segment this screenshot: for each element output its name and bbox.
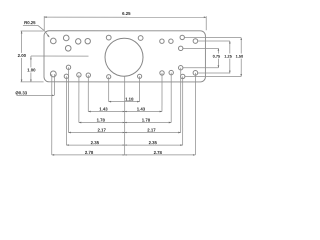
ext line from B9 — [182, 76, 184, 145]
dim 1.00 elbow / centerline ext — [31, 55, 89, 57]
hole T6 — [106, 35, 111, 40]
hole T4 — [76, 39, 81, 44]
hole B2 — [66, 65, 70, 69]
label 1.25 — [224, 53, 233, 58]
dim row 1.78 — [79, 121, 171, 123]
label 0.75 — [212, 53, 221, 58]
ext line from B6 — [161, 73, 163, 112]
svg-text:1.25: 1.25 — [224, 54, 232, 59]
hole B10 — [193, 71, 198, 76]
hole B1 — [50, 71, 56, 77]
hole T8 — [160, 39, 164, 43]
dim 1.25 — [198, 40, 230, 42]
ext line from BM2 — [139, 76, 141, 101]
ext line from B2 — [67, 67, 69, 132]
svg-text:R0.25: R0.25 — [24, 20, 36, 25]
svg-text:2.78: 2.78 — [85, 150, 94, 155]
dim 6.25 line — [44, 16, 206, 18]
hole T11 — [193, 39, 198, 44]
dim 2.00 line — [21, 31, 23, 82]
ext line from B3 — [65, 76, 67, 145]
centerline — [124, 76, 126, 155]
svg-text:0.75: 0.75 — [213, 54, 221, 59]
hole B3 — [64, 74, 68, 78]
ext line left — [43, 16, 45, 30]
svg-text:2.17: 2.17 — [97, 128, 106, 133]
svg-text:2.00: 2.00 — [18, 53, 27, 58]
svg-text:6.25: 6.25 — [122, 11, 131, 16]
hole T12 — [179, 46, 183, 50]
svg-text:1.43: 1.43 — [137, 107, 146, 112]
hole B8 — [179, 66, 183, 70]
label 2.00 — [17, 53, 27, 58]
big center hole — [105, 38, 143, 76]
ext line right — [205, 16, 207, 30]
hole T1 — [51, 38, 57, 44]
hole B9 — [181, 74, 185, 78]
dim row 2.78 — [52, 154, 196, 156]
svg-text:Ø0.33: Ø0.33 — [15, 90, 27, 95]
dim 1.00 line — [30, 56, 32, 82]
leader R0.25 — [23, 26, 49, 38]
dim row 2.17 — [68, 131, 180, 133]
svg-text:1.78: 1.78 — [97, 118, 106, 123]
dim row 2.35 — [66, 144, 182, 146]
ext lines below hole B1 — [51, 74, 53, 155]
ext line from B8 — [180, 68, 182, 133]
dim 1.50 — [185, 37, 242, 39]
hole B5 — [86, 73, 90, 77]
hole T3 — [65, 45, 71, 51]
hole BM2 — [138, 74, 142, 78]
ext line bottom-left — [21, 81, 44, 83]
hole B7 — [169, 70, 173, 74]
dim 0.75 — [183, 47, 218, 49]
plate outline — [44, 31, 205, 82]
svg-text:1.00: 1.00 — [27, 67, 36, 72]
svg-text:2.35: 2.35 — [91, 140, 100, 145]
label 1.50 — [235, 53, 244, 58]
dim row 1.43 — [88, 110, 162, 112]
hole B6 — [160, 71, 164, 75]
label 1.00 — [26, 67, 36, 72]
hole T2 — [63, 35, 69, 41]
ext line from BM1 — [108, 77, 110, 102]
dim row 1.18 — [109, 101, 140, 103]
hole T9 — [169, 39, 173, 43]
hole T5 — [85, 38, 90, 43]
svg-text:1.43: 1.43 — [99, 107, 108, 112]
ext line top-left — [21, 30, 44, 32]
ext line from B4 — [78, 75, 80, 123]
hole B4 — [77, 73, 81, 77]
svg-text:1.50: 1.50 — [236, 54, 244, 59]
ext line from B5 — [87, 75, 89, 111]
ext line from B10 — [194, 73, 196, 155]
svg-text:2.78: 2.78 — [154, 150, 163, 155]
svg-text:1.18: 1.18 — [125, 97, 134, 102]
hole BM1 — [107, 75, 111, 79]
ext line from B7 — [170, 73, 172, 123]
hole T10 — [180, 35, 184, 39]
svg-text:2.17: 2.17 — [147, 128, 156, 133]
svg-text:1.78: 1.78 — [142, 118, 151, 123]
svg-text:2.35: 2.35 — [149, 140, 158, 145]
leader O0.33 — [16, 94, 53, 96]
hole T7 — [138, 36, 143, 41]
